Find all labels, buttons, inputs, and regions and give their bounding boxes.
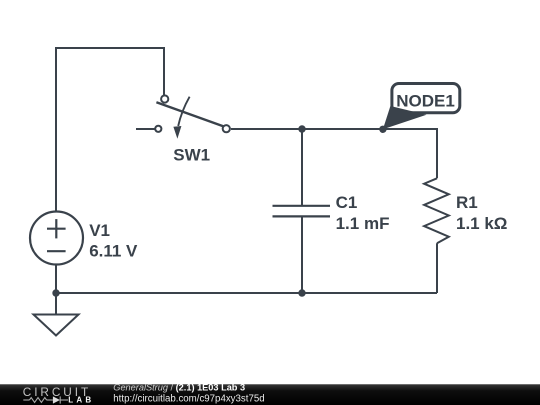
svg-text:GeneralStrug / (2.1) 1E03 Lab: GeneralStrug / (2.1) 1E03 Lab 3 (113, 383, 245, 393)
svg-text:NODE1: NODE1 (396, 92, 455, 111)
svg-text:LAB: LAB (68, 396, 94, 405)
svg-text:http://circuitlab.com/c97p4xy3: http://circuitlab.com/c97p4xy3st75d (113, 394, 264, 405)
svg-text:SW1: SW1 (173, 146, 210, 165)
svg-text:6.11 V: 6.11 V (89, 241, 138, 260)
svg-text:V1: V1 (89, 221, 110, 240)
svg-text:1.1 kΩ: 1.1 kΩ (456, 214, 507, 233)
svg-text:C1: C1 (336, 193, 358, 212)
svg-text:R1: R1 (456, 193, 478, 212)
svg-text:1.1 mF: 1.1 mF (336, 214, 390, 233)
